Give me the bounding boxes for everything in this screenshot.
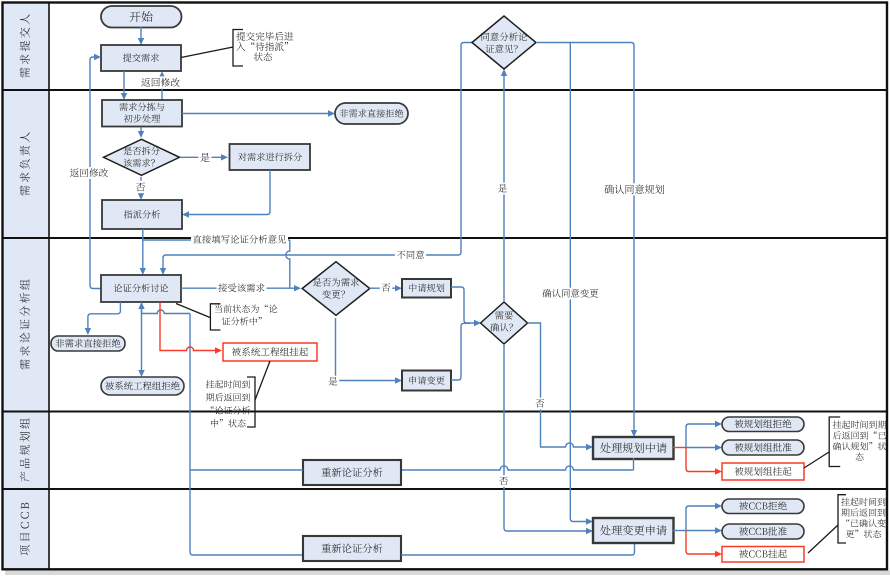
wire 申请规划 -> 需要确认 [451,287,481,326]
lane label column background [3,3,49,569]
terminator 被CCB批准 [722,524,804,539]
suspended 被规划组挂起 [722,463,804,480]
process 提交需求 [101,45,181,71]
annotation callout 当前状态为论证分析中 [176,304,277,331]
label 确认同意规划 [603,183,667,196]
process 处理规划中请 [593,437,674,459]
terminator 被CCB拒绝 [722,499,804,514]
lane divider 4/5 [3,488,887,490]
decision 需要确认 [481,302,528,344]
lane label 需求提交人 [20,14,30,77]
wire 是否为需求变更 -> 申请变更 (是) [336,318,403,384]
label 确认同意变更 [541,288,600,300]
wire 对需求进行拆分 -> 指派分析 [182,170,270,218]
wire 需求分拣 -> 是否拆分该需求 [138,127,144,138]
terminator 被系统工程组拒绝 [101,377,184,395]
label 返回修改 (lane2) [68,167,109,179]
label 否 (变更确认) [498,475,510,487]
wire trunk branch 确认同意变更 -> 处理变更申请 [570,43,593,525]
wire 处理规划申请 outputs junction [673,421,722,475]
annotation callout 挂起时间到期后返回到论证分析中状态 [206,361,270,427]
decision 同意分析论证意见 [472,16,536,69]
suspended 被CCB挂起 [722,547,804,563]
label 不同意 [395,249,426,261]
wire trunk vertical to lane5 [190,470,303,555]
lane label 需求论证分析组 [20,279,30,369]
label 是 (拆分) [199,151,212,163]
wire 开始 -> 提交需求 [138,27,144,45]
wire 处理变更申请 outputs junction [673,503,722,557]
process 指派分析 [102,200,182,229]
annotation callout 挂起时间到期后返回到已确认规划状态 [804,417,886,468]
label 否 (拆分) [134,181,147,193]
annotation callout 挂起时间到期后返回到已确认变更状态 [808,495,886,553]
wire 重新论证分析 -> up trunk (lane4) [190,469,303,471]
process 需求分拣与初步处理 [102,100,182,127]
wire 论证分析讨论 -> 被系统工程组拒绝 [138,302,144,377]
terminator 被规划组批准 [722,440,804,455]
process 申请变更 [402,371,451,391]
wire 重新论证分析 -> 论证分析讨论 (up) [138,302,190,470]
wire 论证分析讨论 -> 提交需求 (返回修改 long return) [90,54,101,289]
process 重新论证分析 (lane5) [303,536,401,561]
lane divider 1/2 [3,89,887,91]
label 是 (变更) [327,376,339,388]
terminator 非需求直接拒绝 (lane2) [335,103,408,124]
wire 论证分析讨论 -> 是否为需求变更 (接受该需求) [181,285,301,291]
annotation callout 提交完毕后进入待指派状态 [181,30,293,67]
wire 同意分析论证意见 -> 论证分析讨论 (不同意) [160,43,472,276]
label 否 (变更) [380,282,392,294]
lane divider 2/3 [3,237,887,239]
wire red 论证分析讨论 -> 被系统工程组挂起 [160,302,222,354]
wire 处理规划申请 -> 重新论证分析 (loop back) [401,458,634,470]
wire 论证分析讨论 -> 非需求直接拒绝 [85,302,121,335]
bottom gray shadow strip [5,571,890,576]
lane label 产品规划组 [20,418,30,481]
lane divider 3/4 [3,411,887,413]
label 接受该需求 [217,282,267,294]
wire 是否拆分 -> 指派分析 (否) [138,177,144,200]
label 是 (需要确认) [496,183,508,195]
wire 申请变更 -> 需要确认 [451,323,470,380]
start node 开始 [101,6,182,28]
process 重新论证分析 (lane4) [303,460,401,485]
wire 提交需求 -> 需求分拣与初步处理 [121,71,127,100]
lane label column divider [48,3,50,570]
lane label 项目CCB [20,503,30,556]
process 对需求进行拆分 [230,144,311,170]
wire 需求分拣 -> 提交需求 返回修改 [159,71,165,100]
suspended 被系统工程组挂起 [223,343,317,361]
wire 需求分拣 -> 非需求直接拒绝 [182,110,335,116]
wire 是否拆分 -> 对需求进行拆分 (是) [181,154,229,160]
wire 需要确认 -> 处理变更申请 (否) [504,344,593,534]
decision 是否拆分该需求 [104,139,180,175]
label 直接填写论证分析意见 [191,234,288,246]
wire 直接填写论证分析意见 branch [143,240,290,288]
label 返回修改 (lane1) [139,76,181,88]
decision 是否为需求变更 [302,262,370,316]
wire 需要确认 -> 处理规划申请 (否) [528,323,594,450]
label 否 (规划) [534,398,546,410]
terminator 非需求直接拒绝 (lane3) [51,336,125,351]
process 论证分析讨论 [101,275,181,302]
wire 重新论证分析(lane5) -> 处理变更申请 [401,543,635,555]
terminator 被规划组拒绝 [722,417,804,432]
wire 是否为需求变更 -> 申请规划 (否) [370,285,403,291]
process 处理变更申请 [593,518,674,543]
lane label 需求负责人 [20,132,30,195]
wire 同意分析论证意见 right trunk [536,43,637,438]
wire 指派分析 -> 论证分析讨论 [140,229,146,275]
wire 需要确认 -> 同意分析论证意见 (是) [501,69,507,302]
process 中请规划 [402,279,451,298]
